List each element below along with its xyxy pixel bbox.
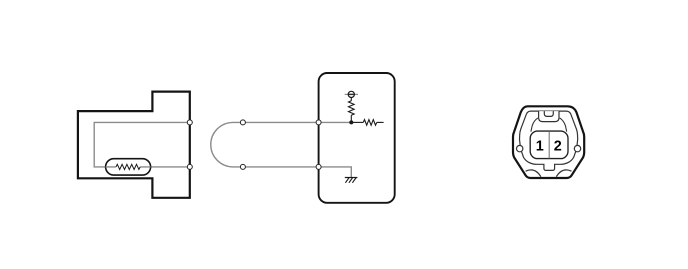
- connector C1 outer shell: [513, 106, 584, 178]
- wire (junction to sense resistor): [351, 121, 363, 123]
- wire (sensor internal loop: top run, left vertical, bottom run): [94, 122, 190, 166]
- svg-text:2: 2: [554, 138, 562, 154]
- wire (stubs through capsule to resistor): [106, 166, 151, 168]
- wire (harness hairpin arc): [211, 122, 233, 166]
- ground hatches: [345, 178, 356, 183]
- connector C1 cavity housing: [530, 131, 568, 159]
- connector C1 bottom-left foot arc: [526, 170, 541, 177]
- connector C1 collar flare right: [560, 118, 567, 132]
- terminal (connector at harness, top): [240, 120, 245, 125]
- connector C1 inner body contour with bottom notch: [520, 111, 578, 170]
- sensor body outline (left component): [78, 92, 190, 198]
- power source bar (inside circle): [348, 93, 354, 95]
- connector C1 cavity divider: [548, 131, 550, 158]
- wire (harness top run to ECU): [233, 121, 319, 123]
- connector C1 right side lobe: [574, 145, 580, 151]
- terminal (ECU pin, bottom): [316, 164, 321, 169]
- wire (resistor to junction): [350, 115, 352, 122]
- wire (inside box, top run to junction): [319, 121, 352, 123]
- junction dot: [349, 120, 353, 124]
- terminal (sensor pin 2, bottom): [187, 164, 192, 169]
- power rail dashes (B+ symbol): [345, 93, 358, 95]
- resistor R pull-up (vertical zigzag): [349, 101, 355, 115]
- terminal (connector at harness, bottom): [240, 164, 245, 169]
- connector C1 collar flare left: [531, 118, 538, 132]
- wire (harness bottom run to ECU): [233, 166, 319, 168]
- power source symbol (circle): [348, 91, 354, 97]
- connector C1 left side lobe: [517, 145, 523, 151]
- connector C1 top lock tab: [539, 111, 559, 122]
- ground bar: [345, 177, 358, 179]
- resistor R heater (zigzag inside capsule): [116, 164, 140, 169]
- svg-text:1: 1: [536, 138, 544, 154]
- terminal (sensor pin 1, top): [187, 120, 192, 125]
- connector C1 lock latch: [544, 111, 553, 116]
- ECU box: [319, 73, 395, 203]
- wire (inside box, bottom run to ground corner): [319, 167, 352, 177]
- connector C1 bottom-right foot arc: [556, 170, 571, 177]
- wire (sense resistor stub end): [377, 121, 384, 123]
- resistor R sense (horizontal zigzag): [363, 120, 377, 126]
- wire (power to resistor): [350, 97, 352, 101]
- terminal (ECU pin, top): [316, 120, 321, 125]
- heater element capsule (bulb outline): [106, 159, 151, 175]
